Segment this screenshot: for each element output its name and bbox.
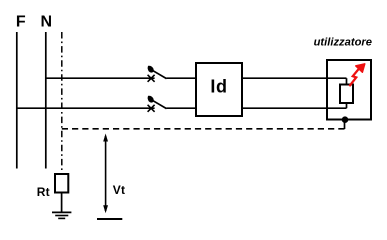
wire relay to load (lower) <box>242 107 347 109</box>
differential relay box Id <box>196 63 242 116</box>
wire N to switch S1 <box>46 77 155 79</box>
load resistor <box>340 85 353 104</box>
svg-text:utilizzatore: utilizzatore <box>314 37 372 49</box>
appliance enclosure box <box>327 60 371 120</box>
switch S1 moving-contact tip <box>148 66 154 73</box>
earth resistor Rt <box>55 174 68 193</box>
switch S1 blade <box>152 70 167 79</box>
wire F to switch S2 <box>17 107 155 109</box>
svg-text:N: N <box>41 14 53 31</box>
earth conductor (dash-dot) <box>61 32 63 174</box>
wire switch S2 to relay box <box>167 107 197 109</box>
neutral bus N <box>45 32 47 169</box>
switch S1 cross mark <box>148 75 155 82</box>
ground symbol <box>52 212 71 218</box>
load resistor stub top <box>346 78 348 84</box>
svg-text:Id: Id <box>210 77 227 97</box>
switch S2 cross mark <box>148 105 155 112</box>
switch S2 moving-contact tip <box>148 96 154 103</box>
protective earth dashed wire <box>62 128 345 130</box>
phase bus F <box>16 32 18 169</box>
protective conductor stub <box>344 120 346 129</box>
junction dot on enclosure <box>342 116 349 123</box>
wire switch S1 to relay box <box>167 77 197 79</box>
variability arrow (red) <box>349 64 365 86</box>
svg-text:Vt: Vt <box>113 183 125 197</box>
ground stem <box>61 193 63 213</box>
svg-text:Rt: Rt <box>37 185 50 199</box>
touch voltage arrow Vt <box>103 134 108 214</box>
svg-text:F: F <box>16 14 26 31</box>
reference potential line <box>97 218 122 220</box>
wire relay to load (upper) <box>242 77 347 79</box>
switch S2 blade <box>152 100 167 109</box>
load resistor stub bottom <box>346 103 348 108</box>
